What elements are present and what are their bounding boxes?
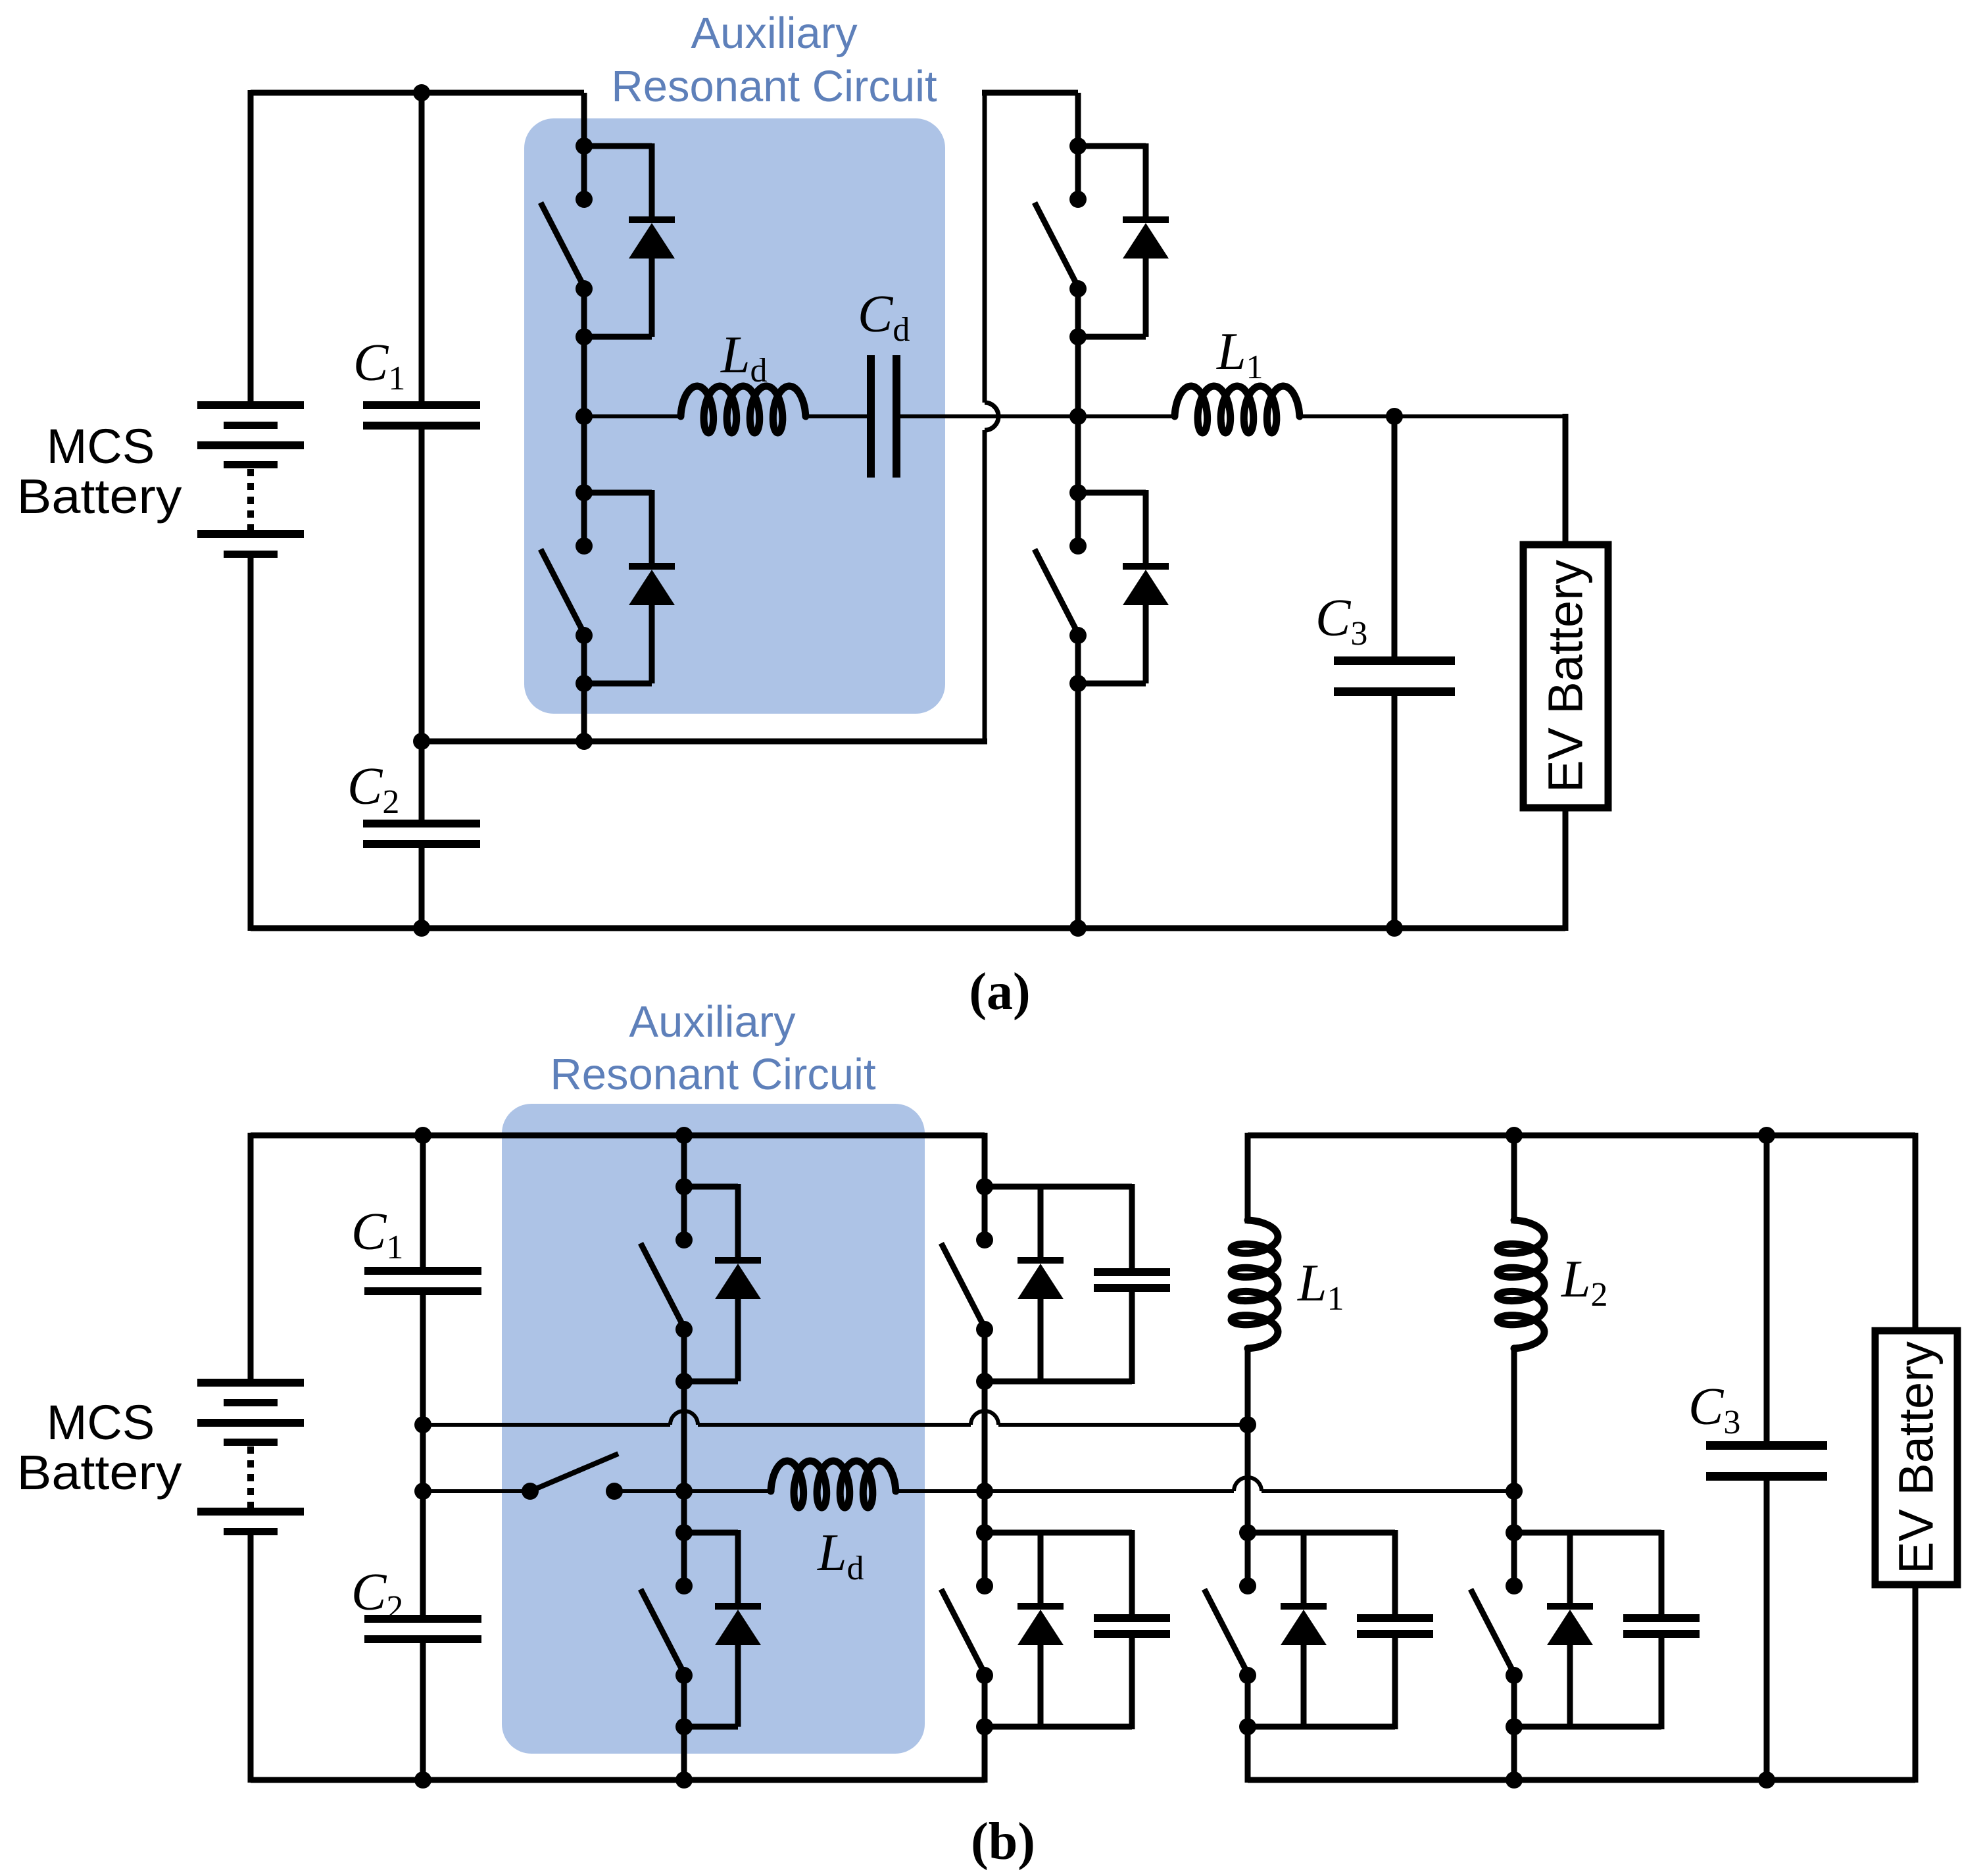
node: aux upper cell bottom (a) bbox=[576, 328, 593, 345]
diode: aux lower antiparallel diode (b) bbox=[684, 1530, 738, 1536]
wire: hop to L2 midpoint (b) bbox=[1262, 1489, 1514, 1493]
diode: L1 lower antiparallel diode (b) bbox=[1248, 1530, 1304, 1536]
node: aux lower cell bottom (b) bbox=[675, 1718, 693, 1735]
node: aux upper cell top (a) bbox=[576, 137, 593, 155]
node: wire1 tap on C string (b) bbox=[414, 1416, 431, 1433]
wire: riser hop around mid wire (a) bbox=[985, 403, 998, 430]
wire: L2 coil to lower cell (b) bbox=[1511, 1346, 1517, 1586]
inductor L2 (b) bbox=[1498, 1220, 1544, 1348]
node: bridge upper cell bottom (b) bbox=[976, 1373, 993, 1390]
wire: switch to aux midpoint (b) bbox=[614, 1489, 684, 1493]
wire: bridge leg (b) bbox=[982, 1133, 988, 1240]
svg-text:Battery: Battery bbox=[17, 1445, 182, 1500]
capacitor: bridge lower snubber (b) bbox=[985, 1530, 1132, 1536]
svg-text:Battery: Battery bbox=[17, 469, 182, 524]
node: aux leg bottom tap (b) bbox=[675, 1771, 693, 1789]
auxiliary resonant circuit highlight box (a) bbox=[524, 118, 945, 714]
node: L1 lower cell top (b) bbox=[1239, 1524, 1256, 1541]
wire: MCS battery negative lead (a) bbox=[248, 555, 254, 931]
node: bridge leg bottom tap (a) bbox=[1069, 920, 1087, 937]
capacitor C3 (b) bbox=[1706, 1441, 1827, 1450]
node: bridge upper cell bottom (a) bbox=[1069, 328, 1087, 345]
EV battery box (b) bbox=[1875, 1331, 1957, 1585]
wire hop over bridge leg (b) bbox=[971, 1411, 998, 1425]
diode: bridge upper antiparallel diode (b) bbox=[985, 1184, 1041, 1190]
wire: top rail left (b) bbox=[251, 1133, 985, 1139]
wire: top rail right bridge (a) bbox=[982, 90, 1078, 96]
wire: L2 leg lower (b) bbox=[1511, 1675, 1517, 1780]
wire: aux leg (a) bbox=[581, 93, 587, 199]
node: bridge lower cell top (b) bbox=[976, 1524, 993, 1541]
auxiliary resonant circuit highlight box (b) bbox=[502, 1104, 925, 1754]
svg-text:L2: L2 bbox=[1561, 1250, 1608, 1314]
wire: bottom rail (a) bbox=[251, 926, 1565, 931]
svg-text:EV Battery: EV Battery bbox=[1889, 1341, 1944, 1574]
wire: top rail right (b) bbox=[1248, 1133, 1915, 1139]
wire: top rail left (a) bbox=[251, 90, 584, 96]
node: wire1 to L1 leg (b) bbox=[1239, 1416, 1256, 1433]
switch: bridge lower switch (b) bbox=[976, 1577, 993, 1594]
svg-text:(b): (b) bbox=[971, 1813, 1035, 1871]
diode: aux upper antiparallel diode (b) bbox=[684, 1184, 738, 1190]
wire: C2 bottom lead (b) bbox=[420, 1639, 426, 1780]
wire: bridge midpoint to L1 hop (b) bbox=[985, 1489, 1234, 1493]
wire: EV battery positive lead (a) bbox=[1563, 414, 1569, 548]
node: L2 top tap (b) bbox=[1506, 1127, 1523, 1144]
wire: EV battery negative lead (b) bbox=[1913, 1585, 1919, 1783]
svg-text:Auxiliary: Auxiliary bbox=[629, 997, 796, 1047]
wire: C string to C2 (b) bbox=[420, 1491, 426, 1617]
wire: C1 top lead (b) bbox=[420, 1135, 426, 1270]
svg-text:C3: C3 bbox=[1315, 589, 1367, 653]
wire: Ld to bridge midpoint (b) bbox=[896, 1489, 985, 1493]
capacitor C1 (a) bbox=[363, 401, 480, 409]
diode: aux lower antiparallel diode (a) bbox=[584, 490, 652, 496]
switch: aux upper switch (a) bbox=[576, 191, 593, 208]
inductor Ld (b) bbox=[771, 1461, 896, 1508]
node: aux midpoint Ld tap (a) bbox=[576, 408, 593, 425]
wire hop over L1 leg (b) bbox=[1234, 1477, 1262, 1491]
wire: bridge leg (a) bbox=[1075, 93, 1081, 199]
node: wire2 tap on C string (b) bbox=[414, 1483, 431, 1500]
capacitor C3 (a) bbox=[1334, 656, 1455, 665]
node: aux lower cell top (a) bbox=[576, 484, 593, 501]
wire: C2 top lead (a) bbox=[419, 741, 425, 822]
svg-text:C2: C2 bbox=[347, 758, 399, 821]
wire: bridge midpoint to L1 (a) bbox=[1078, 414, 1175, 418]
node: C1 top tap (b) bbox=[414, 1127, 431, 1144]
wire: aux leg (b) bbox=[681, 1135, 687, 1240]
wire: C1 bottom lead (a) bbox=[419, 428, 425, 741]
wire: C1 top lead (a) bbox=[419, 93, 425, 404]
wire hop over aux leg (b) bbox=[670, 1411, 698, 1425]
capacitor Cd (a) bbox=[867, 355, 875, 478]
svg-text:L1: L1 bbox=[1297, 1254, 1344, 1318]
wire: C3 top lead (b) bbox=[1764, 1135, 1770, 1444]
switch: series blocking switch (b) bbox=[522, 1483, 539, 1500]
wire: C1 to wire1 tap (b) bbox=[420, 1291, 426, 1425]
wire: C3 top lead (a) bbox=[1392, 416, 1398, 659]
wire: Cd to bridge midpoint (a) bbox=[900, 414, 1078, 418]
node: L2 lower cell top (b) bbox=[1506, 1524, 1523, 1541]
wire: L1 to C3 junction (a) bbox=[1300, 414, 1565, 418]
svg-text:MCS: MCS bbox=[47, 1395, 155, 1450]
capacitor: bridge upper snubber (b) bbox=[985, 1184, 1132, 1190]
node: aux leg bottom tap (a) bbox=[576, 733, 593, 750]
node: C2 bottom tap (b) bbox=[414, 1771, 431, 1789]
wire: MCS battery positive lead (a) bbox=[248, 90, 254, 403]
switch: L2 lower switch (b) bbox=[1506, 1577, 1523, 1594]
svg-text:L1: L1 bbox=[1216, 323, 1263, 386]
node: bridge upper cell top (b) bbox=[976, 1178, 993, 1195]
node: aux upper cell bottom (b) bbox=[675, 1373, 693, 1390]
node: aux leg midpoint (b) bbox=[675, 1483, 693, 1500]
node: L2 leg bottom tap (b) bbox=[1506, 1771, 1523, 1789]
node: aux lower cell bottom (a) bbox=[576, 675, 593, 692]
diode: bridge lower antiparallel diode (a) bbox=[1078, 490, 1146, 496]
node: C1 top tap (a) bbox=[413, 84, 430, 101]
node: L2 lower cell bottom (b) bbox=[1506, 1718, 1523, 1735]
wire: midpoint wire1 segment 3 (b) bbox=[998, 1423, 1248, 1427]
svg-text:C1: C1 bbox=[351, 1203, 403, 1266]
switch: bridge upper switch (b) bbox=[976, 1231, 993, 1248]
node: L2 leg midpoint (b) bbox=[1506, 1483, 1523, 1500]
node: bridge lower cell bottom (b) bbox=[976, 1718, 993, 1735]
wire: EV battery positive lead (b) bbox=[1913, 1133, 1919, 1334]
node: bridge midpoint L1 tap (a) bbox=[1069, 408, 1087, 425]
wire: L1 coil to lower cell (b) bbox=[1245, 1346, 1251, 1586]
svg-text:EV Battery: EV Battery bbox=[1538, 560, 1593, 793]
switch: bridge lower switch (a) bbox=[1069, 537, 1087, 555]
wire: Ld to Cd (a) bbox=[806, 414, 867, 418]
node: aux upper cell top (b) bbox=[675, 1178, 693, 1195]
capacitor: L2 lower snubber (b) bbox=[1514, 1530, 1661, 1536]
node: L1 lower cell bottom (b) bbox=[1239, 1718, 1256, 1735]
wire: MCS battery negative lead (b) bbox=[248, 1533, 254, 1783]
node: bridge lower cell top (a) bbox=[1069, 484, 1087, 501]
node: aux leg top tap (b) bbox=[675, 1127, 693, 1144]
node: C1-C2 midpoint (a) bbox=[413, 733, 430, 750]
wire: L1 leg top (b) bbox=[1245, 1133, 1251, 1223]
wire: aux midpoint to Ld (a) bbox=[584, 414, 681, 418]
svg-text:(a): (a) bbox=[969, 963, 1030, 1021]
wire: C string between taps (b) bbox=[420, 1425, 426, 1491]
inductor L1 (a) bbox=[1175, 386, 1300, 433]
capacitor C2 (b) bbox=[364, 1615, 481, 1623]
wire: bottom rail right (b) bbox=[1248, 1777, 1915, 1783]
svg-text:Resonant Circuit: Resonant Circuit bbox=[611, 62, 937, 111]
diode: bridge lower antiparallel diode (b) bbox=[985, 1530, 1041, 1536]
wire: EV battery negative lead (a) bbox=[1563, 808, 1569, 931]
diode: bridge upper antiparallel diode (a) bbox=[1078, 143, 1146, 149]
node: bridge lower cell bottom (a) bbox=[1069, 675, 1087, 692]
node: bridge upper cell top (a) bbox=[1069, 137, 1087, 155]
svg-text:Resonant Circuit: Resonant Circuit bbox=[550, 1050, 876, 1099]
wire: C3 bottom lead (a) bbox=[1392, 695, 1398, 928]
switch: aux upper switch (b) bbox=[675, 1231, 693, 1248]
node: C3 bottom tap (b) bbox=[1758, 1771, 1775, 1789]
svg-text:C1: C1 bbox=[353, 334, 405, 397]
node: C3 top tap (b) bbox=[1758, 1127, 1775, 1144]
svg-text:C2: C2 bbox=[351, 1564, 403, 1627]
svg-text:Auxiliary: Auxiliary bbox=[691, 9, 858, 58]
svg-text:C3: C3 bbox=[1688, 1378, 1740, 1441]
capacitor C1 (b) bbox=[364, 1267, 481, 1275]
capacitor: L1 lower snubber (b) bbox=[1248, 1530, 1395, 1536]
inductor Ld (a) bbox=[681, 386, 806, 433]
battery MCS (a) bbox=[197, 401, 304, 409]
node: bridge leg midpoint (b) bbox=[976, 1483, 993, 1500]
wire: C3 bottom lead (b) bbox=[1764, 1479, 1770, 1780]
wire: L1 leg lower (b) bbox=[1245, 1675, 1251, 1783]
wire: L2 leg top (b) bbox=[1511, 1135, 1517, 1223]
switch: aux lower switch (b) bbox=[675, 1577, 693, 1594]
diode: L2 lower antiparallel diode (b) bbox=[1514, 1530, 1570, 1536]
wire: MCS battery positive lead (b) bbox=[248, 1133, 254, 1380]
switch: aux lower switch (a) bbox=[576, 537, 593, 555]
svg-text:MCS: MCS bbox=[47, 419, 155, 474]
wire: riser lower segment (a) bbox=[983, 430, 987, 741]
node: aux lower cell top (b) bbox=[675, 1524, 693, 1541]
wire: aux midpoint to Ld (b) bbox=[684, 1489, 771, 1493]
capacitor C2 (a) bbox=[363, 820, 480, 827]
wire: midpoint wire1 segment 1 (b) bbox=[423, 1423, 670, 1427]
wire: midpoint wire1 segment 2 (b) bbox=[698, 1423, 971, 1427]
node: L1/C3/EV junction (a) bbox=[1386, 408, 1403, 425]
wire: midpoint rail (a) bbox=[422, 739, 987, 745]
switch: L1 lower switch (b) bbox=[1239, 1577, 1256, 1594]
switch: bridge upper switch (a) bbox=[1069, 191, 1087, 208]
EV battery box (a) bbox=[1523, 545, 1608, 808]
battery MCS (b) bbox=[197, 1379, 304, 1387]
wire: C2 bottom lead (a) bbox=[419, 846, 425, 928]
wire: wire2 from C string to switch (b) bbox=[423, 1489, 530, 1493]
node: C3 bottom tap (a) bbox=[1386, 920, 1403, 937]
diode: aux upper antiparallel diode (a) bbox=[584, 143, 652, 149]
wire: riser upper segment (a) bbox=[983, 93, 987, 403]
node: C2 bottom tap (a) bbox=[413, 920, 430, 937]
inductor L1 (b) bbox=[1231, 1220, 1278, 1348]
wire: bottom rail left (b) bbox=[251, 1777, 985, 1783]
